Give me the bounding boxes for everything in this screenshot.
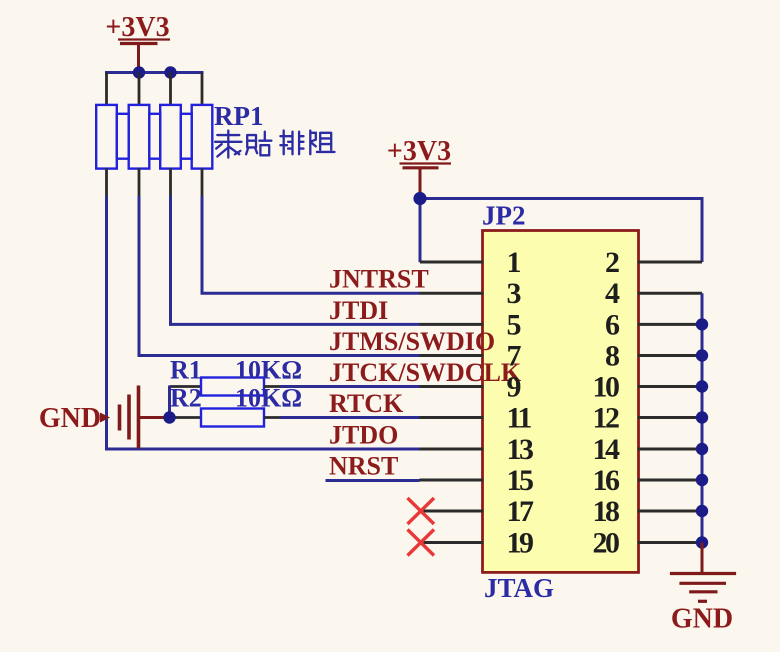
svg-text:17: 17 [507, 495, 535, 528]
label 表贴排阻 [215, 131, 241, 158]
wire JNTRST net [202, 196, 420, 293]
power GND right (earth ground) [701, 543, 704, 575]
svg-text:14: 14 [593, 433, 621, 466]
svg-text:3: 3 [507, 277, 521, 310]
wire GND bus [701, 293, 704, 543]
junction GND bus pin 20 [696, 536, 708, 548]
svg-text:R2: R2 [170, 384, 202, 413]
svg-text:RTCK: RTCK [329, 389, 404, 418]
svg-text:5: 5 [507, 308, 521, 341]
svg-text:R1: R1 [170, 356, 202, 385]
junction top bus left [133, 66, 145, 78]
svg-text:NRST: NRST [329, 452, 398, 481]
svg-text:GND: GND [671, 604, 733, 635]
svg-text:JTMS/SWDIO: JTMS/SWDIO [329, 327, 495, 356]
svg-text:+3V3: +3V3 [387, 136, 451, 167]
svg-text:10KΩ: 10KΩ [235, 356, 302, 385]
svg-text:13: 13 [507, 433, 534, 466]
svg-text:RP1: RP1 [214, 101, 264, 131]
wire +3V3 to pin1 [419, 197, 422, 262]
wire +3V3 to pin2 [420, 199, 702, 263]
connector JP2 body [483, 231, 639, 573]
svg-text:JTCK/SWDCLK: JTCK/SWDCLK [329, 358, 522, 387]
svg-text:8: 8 [605, 340, 619, 373]
resistor R1 [170, 385, 202, 388]
svg-text:+3V3: +3V3 [105, 12, 169, 43]
svg-text:18: 18 [593, 495, 620, 528]
wire JTDO net [107, 196, 420, 449]
junction GND bus pin 8 [696, 349, 708, 361]
svg-text:20: 20 [593, 527, 620, 560]
wire JTMS/SWDIO net [139, 196, 420, 356]
wire NRST net [326, 479, 420, 482]
wire JTCK/SWDCLK net [280, 385, 420, 388]
svg-text:10: 10 [593, 371, 620, 404]
resistor R2 [170, 416, 202, 419]
svg-text:JNTRST: JNTRST [329, 265, 429, 294]
junction GND bus pin 14 [696, 443, 708, 455]
junction GND bus pin 16 [696, 474, 708, 486]
wire JTDI net [171, 196, 420, 324]
junction top bus right [164, 66, 176, 78]
resistor network RP1 [105, 73, 108, 107]
junction GND bus pin 12 [696, 411, 708, 423]
junction +3V3 [413, 192, 426, 205]
junction GND bus pin 6 [696, 318, 708, 330]
wire R1 left to junction [168, 386, 171, 418]
svg-text:19: 19 [507, 527, 534, 560]
svg-text:JTDO: JTDO [329, 421, 398, 450]
pins 1-19 stub wires [420, 261, 484, 264]
svg-text:GND: GND [39, 403, 101, 434]
wire RP1 top bus [105, 71, 204, 74]
junction GND bus pin 10 [696, 380, 708, 392]
svg-text:JTAG: JTAG [484, 573, 554, 603]
svg-text:11: 11 [507, 402, 532, 435]
wire RTCK net [280, 416, 420, 419]
svg-text:9: 9 [507, 371, 521, 404]
svg-text:15: 15 [507, 464, 534, 497]
junction GND/R1/R2 [163, 411, 175, 423]
svg-text:16: 16 [593, 464, 621, 497]
svg-text:JP2: JP2 [482, 201, 526, 231]
svg-text:12: 12 [593, 402, 620, 435]
no connect X pin 19 [408, 530, 435, 556]
no connect X pin 17 [408, 498, 435, 524]
junction GND bus pin 18 [696, 505, 708, 517]
svg-text:JTDI: JTDI [329, 296, 388, 325]
svg-text:2: 2 [605, 246, 619, 279]
pins 2-20 stub wires [638, 261, 703, 264]
svg-text:1: 1 [507, 246, 521, 279]
